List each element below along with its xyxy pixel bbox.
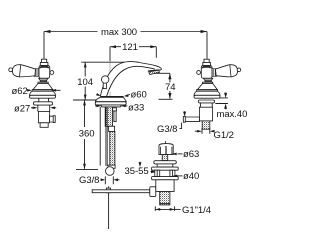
- left valve bell: [33, 84, 53, 90]
- dimension max 300: [44, 27, 207, 59]
- spout inner curve: [107, 66, 155, 96]
- dimension ø33: [95, 102, 144, 113]
- left valve body: [38, 111, 49, 122]
- left valve side outlet: [50, 116, 54, 122]
- left valve head cap (dark): [39, 65, 49, 68]
- right valve lever grip: [215, 64, 241, 79]
- dimension ø60: [96, 89, 146, 100]
- drain tailpiece: [160, 192, 170, 205]
- svg-text:ø63: ø63: [183, 149, 199, 160]
- right valve bell: [197, 84, 217, 90]
- supply pipe (left line): [99, 107, 101, 166]
- dimension ø62: [12, 86, 61, 97]
- right valve shank (threaded): [202, 121, 210, 129]
- spout shank (threaded): [105, 107, 112, 126]
- left valve deck stubs: [39, 98, 49, 102]
- svg-text:G3/8: G3/8: [157, 124, 177, 135]
- pop-up knob: [102, 76, 109, 83]
- dimension G1/2: [195, 128, 234, 141]
- left valve knuckle: [34, 69, 39, 77]
- pop-up rod upper: [106, 107, 107, 166]
- hose end nut (G3/8): [106, 167, 115, 176]
- drain clamp bolts: [155, 170, 160, 176]
- right valve washer: [198, 100, 214, 103]
- dimension ø27: [14, 104, 56, 115]
- svg-text:ø27: ø27: [14, 104, 30, 115]
- dimension G3/8 (right valve leader): [157, 111, 186, 135]
- flexible hose: [110, 132, 115, 167]
- dimension 121: [110, 42, 156, 61]
- drain plug head: [159, 144, 173, 155]
- right valve head cap (dark): [202, 65, 212, 68]
- drain ball-rod nut: [150, 187, 156, 197]
- svg-text:max 300: max 300: [101, 27, 137, 38]
- drain lower plate: [152, 177, 179, 180]
- spout washer: [101, 105, 121, 107]
- right valve head: [201, 65, 212, 78]
- spout mounting tab: [113, 108, 117, 111]
- dimension G3/8 (hose): [79, 175, 119, 186]
- right valve body: [199, 107, 212, 121]
- right valve bonnet: [204, 78, 213, 82]
- svg-text:360: 360: [79, 129, 95, 140]
- pop-up knob stem: [103, 83, 106, 89]
- right valve neck: [200, 103, 212, 107]
- drain plug stem: [162, 155, 168, 161]
- svg-text:ø60: ø60: [131, 89, 147, 100]
- spout centerline: [109, 61, 111, 97]
- left valve washer: [33, 102, 52, 105]
- svg-text:74: 74: [165, 82, 175, 93]
- spout mounting stud: [114, 111, 116, 122]
- svg-text:ø33: ø33: [128, 102, 144, 113]
- right valve left ear: [197, 71, 201, 75]
- dimension G1"1/4: [155, 205, 211, 216]
- svg-text:35-55: 35-55: [125, 166, 149, 177]
- left valve skirt: [29, 91, 55, 95]
- dimension 360: [73, 100, 100, 169]
- rod clamp: [106, 188, 110, 193]
- left valve neck: [38, 105, 50, 111]
- left valve grip tip button: [9, 68, 13, 72]
- drain body: [156, 180, 174, 192]
- svg-text:ø40: ø40: [183, 171, 199, 182]
- svg-text:G1"1/4: G1"1/4: [182, 205, 211, 216]
- dimension 104: [77, 62, 138, 100]
- spout bell: [100, 96, 123, 98]
- drain top flange: [154, 161, 177, 164]
- dimension 35-55: [125, 162, 157, 177]
- spout aerator: [149, 70, 160, 74]
- left valve lever grip: [8, 64, 36, 79]
- svg-text:121: 121: [122, 42, 138, 53]
- svg-text:max.40: max.40: [217, 109, 248, 120]
- right valve grip tip button: [237, 68, 241, 72]
- dimension ø40: [173, 171, 200, 182]
- right valve finial: [203, 59, 211, 65]
- hose end hex: [108, 165, 115, 168]
- dimension ø63: [172, 149, 199, 160]
- dimension max.40: [215, 93, 247, 121]
- hose nut under shank: [109, 126, 115, 131]
- svg-text:104: 104: [77, 77, 93, 88]
- svg-text:G3/8: G3/8: [79, 175, 99, 186]
- pop-up rod lower: [108, 186, 110, 229]
- left valve right ear: [50, 71, 54, 75]
- right valve side outlet: [185, 117, 199, 122]
- right valve knuckle: [212, 69, 217, 77]
- right valve collar: [203, 82, 213, 83]
- left valve shank: [40, 123, 48, 128]
- spout nose / beak: [148, 70, 157, 71]
- right valve skirt: [194, 91, 220, 95]
- left valve finial: [40, 59, 48, 65]
- left valve head: [39, 65, 50, 78]
- horizontal lever bar: [92, 190, 150, 193]
- drain deck plate: [152, 167, 179, 170]
- drain plug stem stub: [165, 141, 167, 145]
- spout body: [100, 62, 161, 97]
- svg-text:ø62: ø62: [12, 86, 28, 97]
- dimension 74: [155, 73, 176, 99]
- drain mid piece: [157, 164, 173, 167]
- left valve bonnet: [39, 78, 48, 82]
- left valve collar: [38, 82, 48, 83]
- svg-text:G1/2: G1/2: [214, 130, 234, 141]
